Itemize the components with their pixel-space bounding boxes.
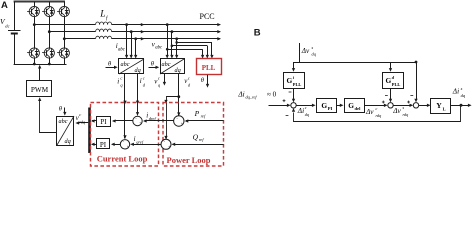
svg-text:P: P <box>194 109 200 118</box>
summing junction J2 <box>388 103 393 108</box>
svg-text:d: d <box>143 82 146 87</box>
wire junction to PI2 <box>112 144 120 146</box>
svg-text:ref: ref <box>199 137 204 142</box>
IGBT S3 <box>42 6 54 16</box>
transform block abc-dq current <box>119 59 145 75</box>
svg-text:c: c <box>376 106 378 111</box>
dashed box Current Loop <box>91 103 159 167</box>
svg-text:PI: PI <box>328 106 333 111</box>
svg-text:del: del <box>355 106 362 111</box>
arrows on phase lines <box>141 23 145 26</box>
svg-text:abc: abc <box>118 47 126 52</box>
svg-text:abc: abc <box>155 46 163 51</box>
wire Q to current junction / label i_qref <box>132 144 162 146</box>
wire reference input arrow <box>269 105 288 107</box>
svg-text:θ: θ <box>59 106 63 113</box>
svg-text:L: L <box>99 10 105 20</box>
svg-text:PWM: PWM <box>31 86 49 94</box>
svg-text:dc: dc <box>5 23 9 28</box>
wire v_d branch to Q block <box>167 97 179 139</box>
IGBT S4 <box>42 48 54 58</box>
svg-text:ref: ref <box>201 114 206 119</box>
svg-text:c: c <box>188 75 190 80</box>
wire rail into J3 <box>416 62 418 99</box>
wire G_PLL^i output <box>293 89 295 100</box>
wire PI1 output to bar <box>92 120 97 122</box>
svg-text:Δv: Δv <box>365 107 374 116</box>
svg-text:i: i <box>117 77 119 85</box>
svg-text:c: c <box>120 76 122 81</box>
svg-text:s: s <box>461 86 463 91</box>
svg-text:L: L <box>443 106 446 111</box>
wire v_abc branch to PLL (staircase) <box>166 48 169 51</box>
PLL block <box>197 59 222 75</box>
wire PWM to bridge <box>39 68 41 81</box>
inductor Lf (three phases) <box>95 21 111 25</box>
svg-text:dq: dq <box>305 112 309 117</box>
transform block dq-abc modulation <box>57 116 75 146</box>
wire i_q to summing junction <box>124 74 126 138</box>
wire B1 to G_PI <box>296 105 312 107</box>
svg-text:dq: dq <box>312 52 317 57</box>
svg-text:dq_ref: dq_ref <box>246 95 258 100</box>
node DC bus junctions <box>33 63 36 66</box>
svg-text:PI: PI <box>100 118 107 126</box>
wire J3 to Y_L <box>419 105 428 107</box>
svg-text:q: q <box>120 83 123 88</box>
svg-text:Δv: Δv <box>301 47 310 55</box>
power block P <box>174 116 184 126</box>
power block Q <box>161 139 171 149</box>
svg-text:Δv: Δv <box>392 106 401 115</box>
node phase taps on legs <box>33 23 36 26</box>
svg-text:q: q <box>158 83 161 88</box>
svg-text:c: c <box>158 76 160 81</box>
PI controller 1 <box>97 117 111 127</box>
wire junction to PI1 <box>114 120 133 122</box>
svg-text:G: G <box>386 76 392 85</box>
wire v_d to power loop <box>178 74 180 116</box>
wire output / label Delta i_dq^s <box>451 105 471 107</box>
svg-text:PLL: PLL <box>293 82 302 87</box>
wire PI2 output to bar <box>92 144 97 146</box>
svg-text:θ: θ <box>201 77 205 84</box>
summing junction B1 <box>291 103 296 108</box>
svg-text:c: c <box>143 75 145 80</box>
wire battery leads <box>14 2 16 31</box>
merge bar <box>88 108 91 154</box>
wire phase a line <box>34 24 220 26</box>
svg-text:abc: abc <box>59 118 68 125</box>
DC source Vdc <box>8 30 21 32</box>
svg-text:A: A <box>1 0 8 11</box>
IGBT S2 <box>27 48 39 58</box>
svg-text:G: G <box>287 76 293 85</box>
theta output of PLL <box>207 75 209 84</box>
svg-text:Δi: Δi <box>237 89 244 98</box>
svg-text:dq: dq <box>461 93 466 98</box>
svg-text:rdq: rdq <box>376 113 382 118</box>
svg-text:Current Loop: Current Loop <box>97 153 148 163</box>
summing junction current q <box>120 140 129 149</box>
svg-text:qref: qref <box>136 139 144 144</box>
svg-text:B: B <box>254 28 261 39</box>
wire v_rdq into modulation transform <box>78 122 88 124</box>
block G_del <box>345 99 365 113</box>
wire G_del to J2 / label Delta v_rdq^c <box>364 105 385 107</box>
IGBT S1 <box>27 6 39 16</box>
block G_PLL^i <box>293 62 295 69</box>
dashed box Power Loop <box>163 103 224 167</box>
svg-text:dq: dq <box>135 67 141 74</box>
wire Delta v_dq^s input drop <box>299 43 301 62</box>
wire G_PLL^d output <box>390 89 392 100</box>
svg-text:≈ 0: ≈ 0 <box>267 91 277 99</box>
svg-text:abc: abc <box>162 61 171 68</box>
svg-text:dq: dq <box>65 138 71 145</box>
wire phase c line <box>64 38 220 40</box>
wire P_ref input <box>186 120 224 122</box>
wire Q_ref input <box>173 144 224 146</box>
wire modulation signal into PWM <box>40 101 57 133</box>
svg-text:abc: abc <box>121 61 130 68</box>
svg-text:rdq: rdq <box>403 112 409 117</box>
wire P to current junction / label i_dref <box>145 120 174 122</box>
svg-text:Q: Q <box>193 133 199 142</box>
summing junction J3 <box>413 103 418 108</box>
svg-text:PI: PI <box>100 141 107 149</box>
svg-text:θ: θ <box>108 60 112 67</box>
wire i_d to summing junction <box>137 74 139 115</box>
svg-text:c: c <box>79 112 81 117</box>
wire G_PI to G_del <box>337 105 341 107</box>
PI controller 2 <box>97 139 110 149</box>
block G_PLL^d <box>390 62 392 69</box>
svg-text:dq: dq <box>175 67 181 74</box>
svg-text:PCC: PCC <box>200 12 215 21</box>
svg-text:θ: θ <box>151 60 155 67</box>
svg-text:i: i <box>140 77 142 85</box>
svg-text:s: s <box>312 45 314 50</box>
svg-text:PLL: PLL <box>392 82 401 87</box>
wire feedback loop <box>294 106 461 122</box>
transform block abc-dq voltage <box>160 59 185 75</box>
wire v_q stub <box>164 74 166 82</box>
wire phase b line <box>49 31 220 33</box>
wire DC positive bus <box>14 1 65 3</box>
svg-text:f: f <box>106 14 109 21</box>
svg-text:G: G <box>348 101 354 110</box>
svg-text:dref: dref <box>149 116 157 121</box>
wire v_dq rail <box>294 62 417 64</box>
svg-text:PLL: PLL <box>202 64 216 72</box>
block G_PI <box>317 99 337 113</box>
svg-text:G: G <box>321 101 327 110</box>
wire bridge legs <box>34 2 36 7</box>
wire DC negative bus <box>14 64 67 66</box>
svg-text:rdq: rdq <box>79 119 86 124</box>
wire J2 to J3 / label Delta v_rdq^s <box>393 105 410 107</box>
wire v_abc measurement taps <box>166 23 169 26</box>
PWM block <box>27 81 52 97</box>
svg-text:d: d <box>188 82 191 87</box>
svg-text:Y: Y <box>436 101 442 110</box>
summing junction current d <box>133 116 142 125</box>
block Y_L <box>431 99 451 114</box>
svg-text:Δi: Δi <box>297 106 304 115</box>
svg-text:Δi: Δi <box>452 87 459 96</box>
svg-text:Power Loop: Power Loop <box>167 155 211 165</box>
wire i_abc measurement taps <box>125 23 128 26</box>
IGBT S5 <box>57 6 69 16</box>
IGBT S6 <box>57 48 69 58</box>
